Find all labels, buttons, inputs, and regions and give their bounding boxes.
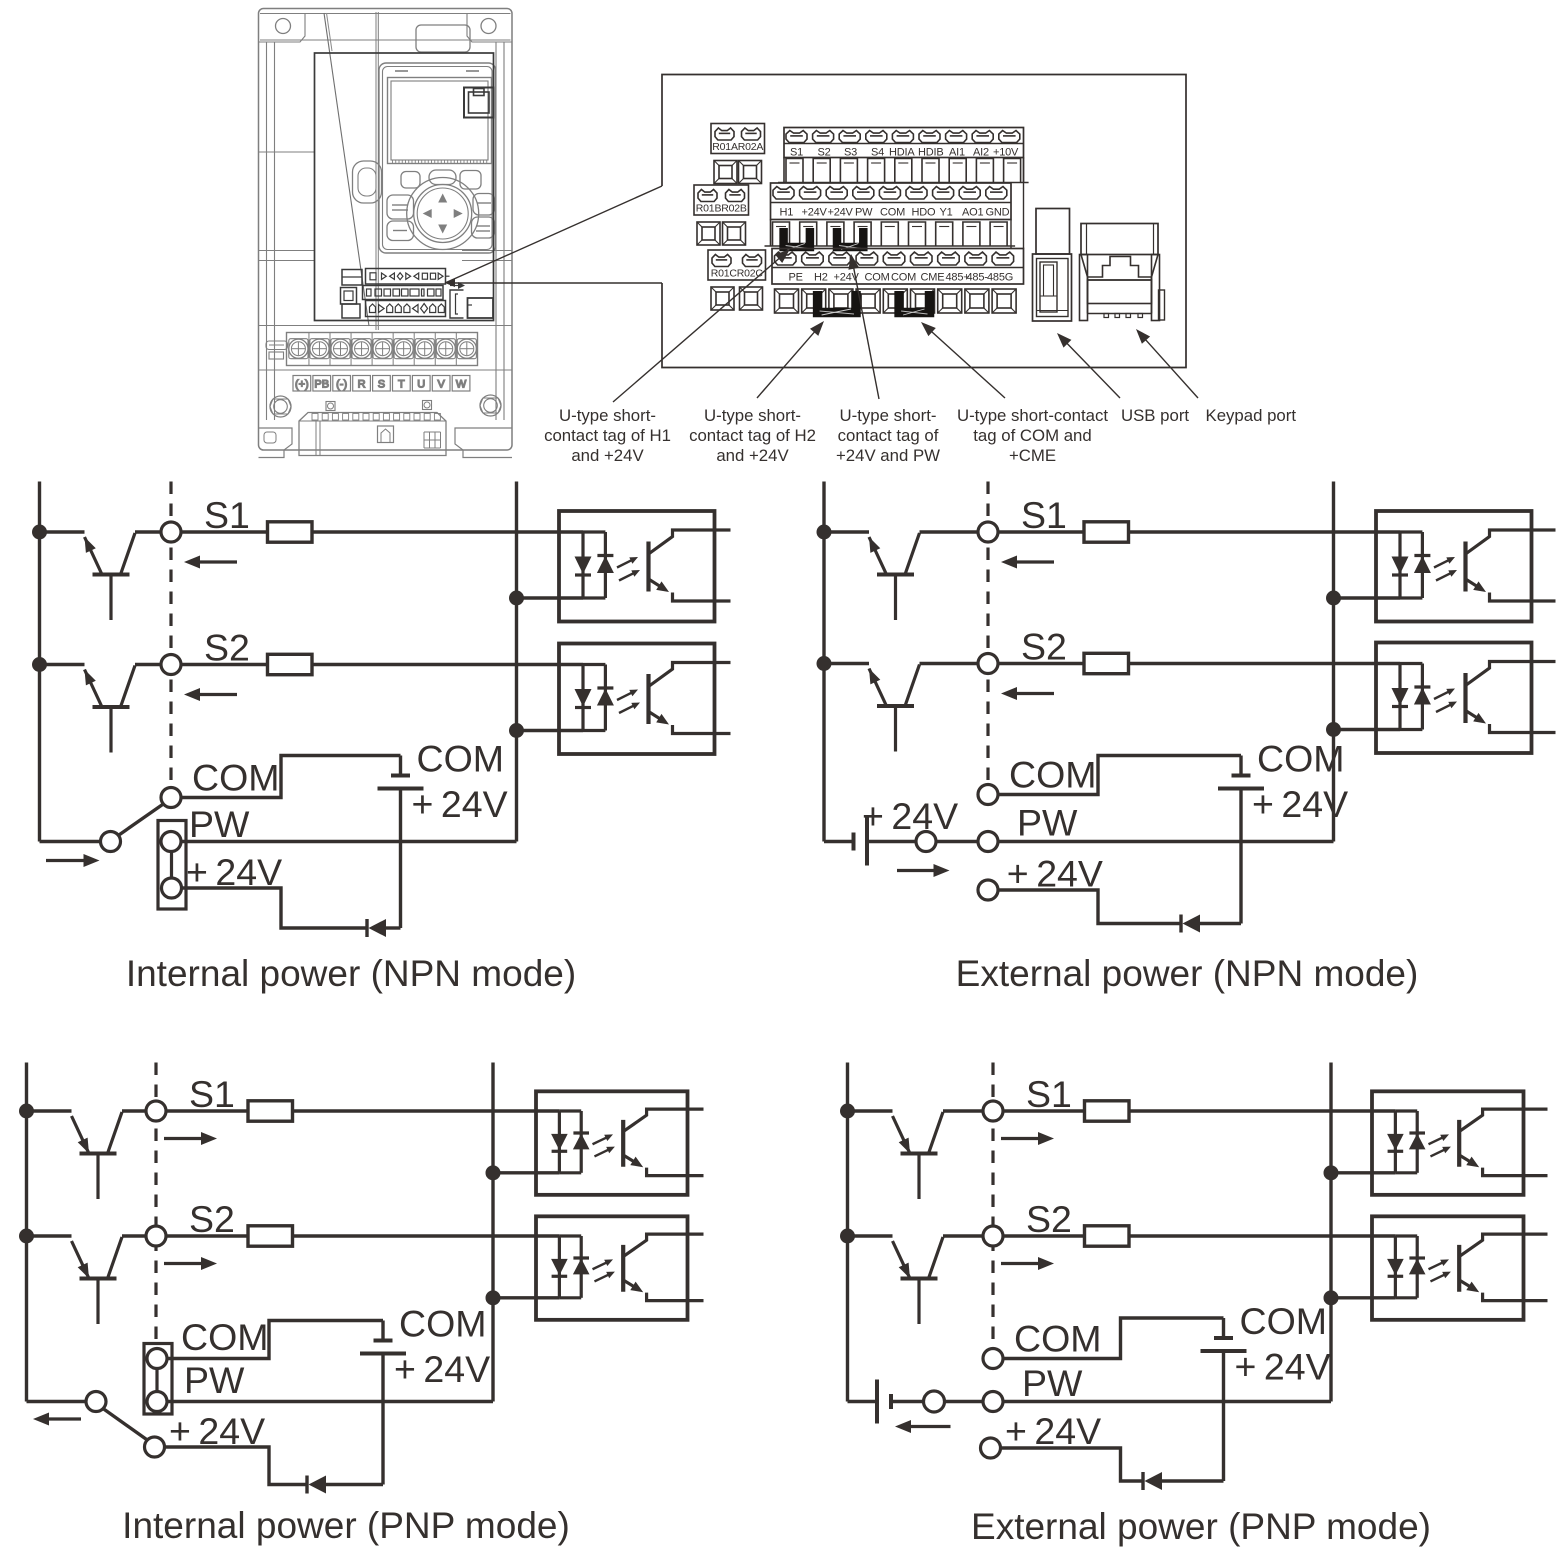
svg-text:and +24V: and +24V [716,446,789,465]
device corner screw top-right [467,13,512,42]
keypad port [1080,224,1165,321]
USB port [1033,209,1072,322]
terminal row H1 +24V +24V PW COM HDO Y1 AO1 GND [771,183,1012,220]
wire circle to PW [936,840,978,843]
svg-text:S1: S1 [1021,494,1067,536]
optocoupler U1 internal power NPN [559,511,731,622]
relay terminal block R01B/R02B [694,185,749,215]
wire COM to internal supply [167,1321,383,1359]
device control strip right bracket [450,282,465,318]
leader arrow tag +24V/PW [853,267,879,399]
transistor Q1 external power PNP [848,1111,944,1199]
device keypad panel [379,63,496,253]
wire +24V to diode [1001,1448,1144,1481]
relay terminal block R01A/R02A [711,124,765,154]
svg-text:PB: PB [314,379,329,391]
optocoupler U2 internal power NPN [559,644,731,755]
wire left bus [38,482,41,842]
svg-text:U-type short-: U-type short- [704,406,801,425]
junction [840,1104,855,1119]
svg-text:PE: PE [789,272,803,284]
transistor Q1 internal power NPN [40,532,136,620]
junction [32,657,47,672]
resistor [248,1226,293,1246]
wire COM to internal supply [998,756,1241,795]
junction [486,1290,501,1305]
leader arrow keypad port [1145,339,1198,398]
node COM [161,788,181,808]
svg-text:S1: S1 [790,147,803,159]
device control strip 2 [363,286,444,300]
junction [1326,722,1341,737]
junction [509,723,524,738]
svg-text:+ 24V: + 24V [1252,783,1348,825]
terminal circle [924,1391,945,1412]
svg-text:PW: PW [1017,802,1078,844]
arrow signal direction [1015,692,1054,695]
svg-text:COM: COM [399,1303,487,1345]
diode [307,1476,326,1494]
leader arrow tag H2/+24V [757,331,815,398]
junction [1324,1290,1339,1305]
wire dashed isolation line [169,482,172,788]
svg-text:+ 24V: + 24V [394,1348,490,1390]
arrow current direction [897,869,936,872]
node S1 [161,522,181,542]
svg-text:HDO: HDO [912,207,936,219]
battery internal +24V supply [378,756,424,789]
wire battery to terminal circle [891,1400,924,1403]
svg-text:R01CR02C: R01CR02C [711,268,764,280]
svg-text:R: R [358,379,366,391]
svg-text:+10V: +10V [993,147,1019,159]
wire optocoupler 2 return [493,1296,559,1299]
svg-text:485-: 485- [967,272,989,284]
wire right bus [1332,482,1335,842]
leader arrow tag COM/+CME [931,331,1005,398]
leader line from device to detail box (lower) [452,282,662,284]
device keypad left ear [353,161,382,203]
svg-text:S3: S3 [844,147,857,159]
wire S1 to resistor [998,530,1084,533]
label U-type short-contact tag of +24V and PW [836,406,940,465]
short-contact tag COM/+CME [899,291,929,313]
device bottom base [299,413,446,456]
separator comb row 1 [778,158,1029,184]
wire +24V to diode [998,890,1181,924]
wire S2 to resistor [181,663,268,666]
node S2 [146,1226,166,1246]
wire S1 to resistor [181,530,268,533]
svg-text:COM: COM [1014,1318,1102,1360]
svg-text:S1: S1 [204,494,250,536]
wire dashed isolation line [991,1063,994,1349]
resistor [1085,1101,1130,1121]
node PW [147,1392,167,1412]
optocoupler U1 external power NPN [1376,511,1556,622]
node S2 [978,654,998,674]
svg-text:+ 24V: + 24V [1007,853,1103,895]
resistor [248,1101,293,1121]
wire optocoupler 1 return [1331,1171,1395,1174]
transistor Q2 internal power PNP [27,1236,123,1324]
wire left bus to battery [848,1400,878,1403]
wire +24V to diode [165,1447,308,1485]
wire optocoupler 2 return [1334,728,1401,731]
svg-text:T: T [398,379,405,391]
wire collector to S2 terminal [122,1234,146,1237]
wire right bus [491,1063,494,1402]
svg-text:S2: S2 [1026,1198,1072,1240]
wire left bus [822,482,825,842]
device mounting screw bottom-right [480,395,501,416]
wire resistor to optocoupler 2 [312,663,583,666]
device navigation wheel [407,178,479,250]
label U-type short-contact tag of COM and +CME [957,406,1108,465]
svg-text:AI1: AI1 [949,147,965,159]
device cover removal line [324,13,369,326]
resistor [1084,653,1129,673]
device centre seam [376,12,378,330]
svg-text:U-type short-contact: U-type short-contact [957,406,1108,425]
right edge connector [1010,220,1012,249]
device feet [259,428,513,458]
device terminal labels (+) PB (-) R S T U V W [293,376,470,392]
device control strip left blocks [341,270,363,319]
transistor Q2 external power NPN [824,664,920,752]
transistor Q1 internal power PNP [27,1111,123,1199]
leader line from device to detail box (upper) [445,186,662,283]
transistor Q2 internal power NPN [40,665,136,753]
node S2 [983,1226,1003,1246]
label U-type short-contact tag of H1 and +24V [544,406,671,465]
square clamp row [775,289,1017,313]
arrow signal direction [198,560,237,563]
wire internal supply negative [1222,1352,1225,1482]
device mounting screw bottom-left [270,396,291,417]
node +24V [162,878,182,898]
junction [19,1104,34,1119]
battery internal +24V supply [360,1321,406,1354]
svg-text:contact tag of H1: contact tag of H1 [544,426,671,445]
diode [1143,1472,1162,1490]
svg-text:S2: S2 [189,1198,235,1240]
resistor [268,522,313,542]
arrow current direction [909,1425,951,1428]
arrow signal direction [1001,1262,1040,1265]
switch [86,1392,148,1441]
wire left bus [846,1063,849,1402]
wire COM to internal supply [181,756,401,798]
wire resistor to optocoupler 1 [293,1109,560,1112]
svg-text:S1: S1 [1026,1073,1072,1115]
svg-text:AO1: AO1 [962,207,983,219]
svg-text:+ 24V: + 24V [862,795,958,837]
svg-text:+24V: +24V [802,207,828,219]
device outer case [259,9,513,451]
relay terminal block R01C/R02C [708,250,766,280]
wire diode to supply [326,1483,383,1486]
svg-text:GND: GND [986,207,1010,219]
wire collector to S1 terminal [135,530,161,533]
svg-text:HDIB: HDIB [918,147,943,159]
wire collector to S2 terminal [943,1234,983,1237]
svg-text:COM: COM [417,738,505,780]
inverter device drawing [259,9,513,458]
node S2 [161,655,181,675]
svg-text:R01BR02B: R01BR02B [696,203,747,215]
svg-text:COM: COM [891,272,916,284]
wire dashed isolation line [986,482,989,785]
svg-text:S: S [378,379,385,391]
svg-text:PW: PW [189,803,250,845]
svg-text:COM: COM [1240,1300,1328,1342]
selection rectangle (zoom source) [315,53,494,321]
terminal circle [916,832,936,852]
svg-text:HDIA: HDIA [889,147,915,159]
node S1 [146,1101,166,1121]
node COM [978,785,998,805]
battery external +24V [877,1380,891,1424]
wire +24V to diode [182,888,368,928]
wire S2 to resistor [998,662,1084,665]
wire resistor to optocoupler 1 [312,530,583,533]
svg-text:+ 24V: + 24V [412,783,508,825]
node COM [983,1349,1003,1369]
svg-text:R01AR02A: R01AR02A [712,141,763,153]
junction [840,1229,855,1244]
svg-text:S2: S2 [204,627,250,669]
device keypad buttons [387,170,495,241]
detail view box [662,75,1186,368]
svg-text:Internal power (NPN mode): Internal power (NPN mode) [126,953,576,994]
short-contact tag COM/PW [144,1344,172,1415]
wire optocoupler 1 return [493,1171,559,1174]
wire optocoupler 1 return [1334,596,1401,599]
device warning plate [266,341,288,359]
svg-text:COM: COM [192,757,280,799]
resistor [268,654,313,674]
node COM [147,1349,167,1369]
svg-text:Y1: Y1 [940,207,953,219]
device keypad connector [468,298,494,318]
short-contact tag PW/+24V [158,821,186,910]
wire PW to right bus [998,840,1334,843]
device control strip 1 [366,269,450,285]
node S1 [983,1101,1003,1121]
switch [101,804,165,852]
junction [32,525,47,540]
battery internal +24V supply [1218,756,1264,789]
arrow switch direction [47,1417,81,1420]
svg-text:and +24V: and +24V [571,446,644,465]
leader arrow USB port [1066,342,1120,398]
svg-text:S4: S4 [871,147,884,159]
svg-text:U: U [417,379,425,391]
wire dashed isolation line [154,1063,157,1344]
device side rails [267,42,505,420]
wire S1 to resistor [166,1109,248,1112]
arrow signal direction [1001,1137,1040,1140]
svg-text:S1: S1 [189,1073,235,1115]
svg-text:tag of COM and: tag of COM and [973,426,1091,445]
svg-text:U-type short-: U-type short- [559,406,656,425]
resistor [1085,1226,1130,1246]
wire left bus to switch [27,1400,87,1403]
wire S2 to resistor [166,1234,248,1237]
wire left bus to battery [824,840,854,843]
svg-text:+24V: +24V [828,207,854,219]
wire PW to right bus [167,1400,493,1403]
node +24V [978,880,998,900]
device small screws [326,401,432,411]
junction [1326,591,1341,606]
svg-text:H1: H1 [780,207,794,219]
node S1 [978,522,998,542]
wire collector to S2 terminal [920,662,979,665]
wire resistor to optocoupler 2 [293,1234,560,1237]
svg-text:PW: PW [855,207,873,219]
wire optocoupler 2 return [1331,1296,1395,1299]
leader arrow tag H1/+24V [613,258,780,402]
diode [367,919,386,937]
svg-text:+24V and PW: +24V and PW [836,446,940,465]
arrow signal direction [164,1137,203,1140]
junction [817,656,832,671]
wire internal supply negative [399,789,402,928]
wire left bus [25,1063,28,1402]
wire diode to supply [1200,922,1241,925]
svg-text:S2: S2 [1021,626,1067,668]
svg-text:(-): (-) [336,379,347,391]
wire optocoupler 2 return [517,729,584,732]
wire PW to right bus [181,840,517,843]
svg-text:W: W [456,379,467,391]
wire battery to terminal circle [867,840,916,843]
resistor [1084,522,1129,542]
arrow signal direction [198,693,237,696]
svg-text:485G: 485G [987,272,1013,284]
node PW [978,832,998,852]
arrow switch direction [46,859,86,862]
device power terminal block [287,333,478,366]
svg-text:PW: PW [184,1359,245,1401]
svg-text:External power (PNP mode): External power (PNP mode) [971,1506,1431,1547]
node +24V [981,1438,1001,1458]
optocoupler U1 internal power PNP [536,1091,704,1195]
wire circle to PW [945,1400,984,1403]
junction [486,1165,501,1180]
device control strip 3 [366,301,446,317]
arrow signal direction [1015,560,1054,563]
wire resistor to optocoupler 1 [1129,1109,1395,1112]
wire S1 to resistor [1003,1109,1085,1112]
optocoupler U2 internal power PNP [536,1216,704,1320]
short-contact tag H1/+24V [784,228,810,247]
optocoupler U2 external power NPN [1376,643,1556,754]
svg-text:contact tag of: contact tag of [838,426,939,445]
svg-text:+ 24V: + 24V [1235,1346,1331,1388]
arrow signal direction [164,1262,203,1265]
label U-type short-contact tag of H2 and +24V [689,406,816,465]
svg-text:+CME: +CME [1009,446,1056,465]
svg-text:COM: COM [880,207,905,219]
short-contact tag H2/+24V [818,291,856,313]
svg-text:USB port: USB port [1121,406,1189,425]
svg-text:contact tag of H2: contact tag of H2 [689,426,816,445]
svg-text:PW: PW [1022,1362,1083,1404]
wire S2 to resistor [1003,1234,1085,1237]
wire collector to S1 terminal [943,1109,983,1112]
svg-text:+ 24V: + 24V [1005,1410,1101,1452]
svg-text:Internal power (PNP mode): Internal power (PNP mode) [122,1505,570,1546]
junction [509,591,524,606]
svg-text:COM: COM [1257,738,1345,780]
transistor Q2 external power PNP [848,1236,944,1324]
wire left bus to switch [40,840,101,843]
junction [1324,1165,1339,1180]
battery external +24V [854,818,868,866]
svg-text:U-type short-: U-type short- [840,406,937,425]
wire right bus [1329,1063,1332,1402]
svg-text:H2: H2 [814,272,828,284]
svg-text:S2: S2 [818,147,831,159]
short-contact tag +24V/PW [837,228,863,247]
terminal row S1 S2 S3 S4 HDIA HDIB AI1 AI2 +10V [784,128,1024,159]
wire diode to supply [386,926,401,929]
wire optocoupler 1 return [517,596,584,599]
wire resistor to optocoupler 2 [1129,662,1401,665]
device seams [259,152,513,370]
junction [817,525,832,540]
svg-text:External power (NPN mode): External power (NPN mode) [956,953,1419,994]
junction [19,1229,34,1244]
device display [388,71,492,164]
optocoupler U1 external power PNP [1372,1091,1548,1195]
optocoupler U2 external power PNP [1372,1216,1548,1320]
diode [1181,915,1200,933]
svg-text:COM: COM [181,1316,269,1358]
svg-text:AI2: AI2 [973,147,989,159]
wire collector to S1 terminal [920,530,979,533]
wire diode to supply [1162,1479,1224,1482]
svg-text:(+): (+) [295,379,309,391]
svg-text:V: V [437,379,445,391]
terminal row PE H2 +24V COM COM CME 485+ 485- 485G [772,249,1024,285]
svg-text:COM: COM [865,272,890,284]
device top vent [416,25,470,52]
svg-text:CME: CME [921,272,945,284]
node +24V [145,1437,165,1457]
wire COM to internal supply [1003,1318,1224,1359]
node PW [983,1392,1003,1412]
wire resistor to optocoupler 1 [1129,530,1401,533]
wire collector to S2 terminal [135,663,161,666]
wire internal supply negative [381,1354,384,1485]
battery internal +24V supply [1201,1318,1247,1351]
wire PW to right bus [1003,1400,1331,1403]
node PW [161,832,181,852]
separator comb row 2 [765,220,1016,247]
wire resistor to optocoupler 2 [1129,1234,1395,1237]
wire collector to S1 terminal [122,1109,146,1112]
svg-text:COM: COM [1009,754,1097,796]
transistor Q1 external power NPN [824,532,920,620]
svg-text:Keypad port: Keypad port [1206,406,1297,425]
wire internal supply negative [1239,789,1242,924]
device corner screw top-left [259,13,306,42]
wire right bus [515,482,518,842]
